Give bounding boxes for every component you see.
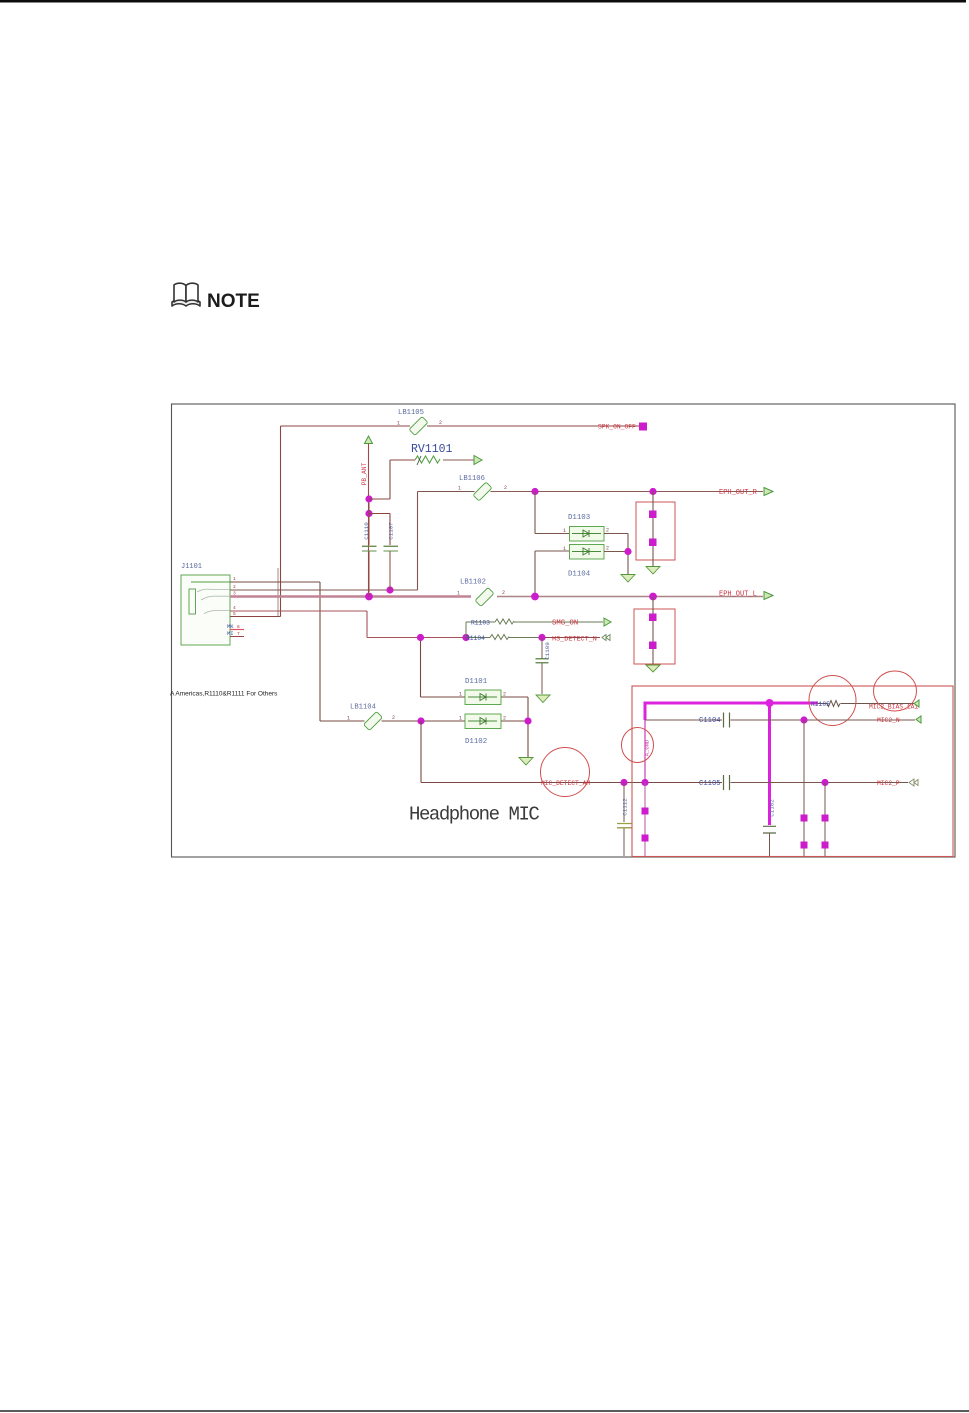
wire pin3 EPH_OUT_L (wide) xyxy=(230,595,471,598)
port arrow EPH_OUT_L xyxy=(764,592,773,600)
svg-text:C1110: C1110 xyxy=(363,522,370,540)
svg-text:HS_DETECT_N: HS_DETECT_N xyxy=(552,636,597,644)
svg-text:NOTE: NOTE xyxy=(207,291,260,312)
pad R2 xyxy=(649,539,657,547)
wire C1104 row xyxy=(645,719,722,721)
wire AGND drop (thin magenta) xyxy=(644,720,646,783)
pad column x825 xyxy=(824,783,826,857)
wire D1103 out xyxy=(604,534,628,552)
svg-text:C1107: C1107 xyxy=(388,522,395,540)
wire HS_DETECT_N run xyxy=(542,637,600,639)
svg-text:C1105: C1105 xyxy=(699,780,721,788)
wire pin5 second strand xyxy=(277,568,279,617)
svg-text:2: 2 xyxy=(606,546,609,552)
wire LB1104 to D1102 xyxy=(382,720,466,722)
junction HS node / C1109 xyxy=(538,634,545,641)
junction PB/RV tap xyxy=(365,495,372,502)
power arrow PB xyxy=(365,436,373,444)
svg-text:MI: MI xyxy=(227,630,234,637)
wire pin1 net (to LB1104 row) xyxy=(230,582,365,721)
svg-text:J1101: J1101 xyxy=(181,563,202,571)
svg-text:C1102: C1102 xyxy=(769,799,776,817)
wire MIC detect run xyxy=(421,721,722,783)
wire D1102 out xyxy=(501,720,528,722)
junction pin2/cap2 xyxy=(386,586,393,593)
thick MIC bias bus horizontal xyxy=(645,702,818,705)
pad L1 xyxy=(649,614,657,622)
junction pin3/jack L xyxy=(649,593,657,601)
svg-text:C1112: C1112 xyxy=(622,798,629,816)
wire pin5 to LB1105 (left vertical riser) xyxy=(230,426,410,617)
svg-text:2: 2 xyxy=(502,590,505,596)
svg-text:2: 2 xyxy=(504,485,507,491)
annotation circle MIC_DETECT xyxy=(541,748,590,797)
junction D1103/D1104 xyxy=(624,548,631,555)
svg-text:1: 1 xyxy=(563,546,566,552)
svg-text:D1101: D1101 xyxy=(465,678,488,686)
junction EPH_OUT_R / D1103 xyxy=(531,488,538,495)
wire LB1105 to SPK pad xyxy=(427,425,639,427)
ground jack R xyxy=(646,567,660,575)
svg-text:A Americas,R1110&R1111 For Oth: A Americas,R1110&R1111 For Others xyxy=(170,691,278,698)
svg-text:1: 1 xyxy=(458,486,461,492)
capacitor C1104 xyxy=(724,713,730,728)
svg-text:1: 1 xyxy=(457,591,460,597)
wire D1104 branch xyxy=(535,551,569,597)
ferrite bead LB1102 xyxy=(475,588,494,607)
thick MIC bias bus left drop xyxy=(644,702,647,721)
junction D1102 out xyxy=(524,717,531,724)
resistor R1105 xyxy=(818,701,914,707)
svg-text:1: 1 xyxy=(459,692,462,698)
svg-text:LB1102: LB1102 xyxy=(460,579,486,587)
svg-text:C1109: C1109 xyxy=(544,642,551,660)
svg-text:SPK_ON_OFF: SPK_ON_OFF xyxy=(598,424,636,431)
svg-text:MIC_DETECT_AM: MIC_DETECT_AM xyxy=(541,780,590,787)
svg-text:R1103: R1103 xyxy=(471,620,490,627)
svg-text:LB1105: LB1105 xyxy=(398,409,424,417)
svg-text:RV1101: RV1101 xyxy=(411,443,453,456)
annotation circle MIC2_BIAS xyxy=(874,671,917,711)
svg-text:4: 4 xyxy=(233,605,236,611)
capacitor C1107 (right) xyxy=(384,546,399,590)
ferrite bead LB1106 xyxy=(473,482,492,501)
wire C1104 to MIC2_N xyxy=(731,719,916,721)
ferrite bead LB1105 xyxy=(409,417,428,436)
svg-text:1: 1 xyxy=(233,576,236,582)
svg-text:R1105: R1105 xyxy=(811,701,830,708)
junction MIC2_P/C1112 xyxy=(620,779,627,786)
junction R1103 tap xyxy=(462,634,469,641)
diode pack D1101 xyxy=(465,690,501,705)
thick MIC bias bus center drop xyxy=(768,703,771,825)
note icon (open book) xyxy=(172,283,200,306)
junction pin3/D1104 xyxy=(531,593,539,601)
svg-text:PB_ANT: PB_ANT xyxy=(361,462,368,485)
svg-text:6: 6 xyxy=(237,624,240,630)
junction LB1104/D1102 node xyxy=(417,717,424,724)
junction C1104/column xyxy=(800,716,807,723)
wire D1101 branch xyxy=(421,638,466,697)
junction PB/C tap xyxy=(365,510,372,517)
svg-text:LB1104: LB1104 xyxy=(350,704,376,712)
ground D1103/D1104 xyxy=(621,575,635,583)
top page bar xyxy=(0,0,966,3)
diode pack D1103 xyxy=(570,527,605,542)
wire jack L column xyxy=(652,597,654,665)
port arrow RV1101 out xyxy=(474,456,482,465)
port arrow HS_DETECT_N xyxy=(602,635,610,641)
ferrite bead LB1104 xyxy=(364,712,383,731)
junction MIC2_P/pad column xyxy=(641,779,648,786)
resistor R1103 branch xyxy=(466,619,603,638)
svg-text:C1104: C1104 xyxy=(699,717,721,725)
junction pin3/cap1 xyxy=(365,593,373,601)
svg-text:D1104: D1104 xyxy=(568,571,591,579)
junction bus T xyxy=(766,699,774,707)
J1101 pin7 stub xyxy=(230,636,244,638)
wire pin2 net to LB1106 xyxy=(230,492,475,591)
svg-text:SMG_ON: SMG_ON xyxy=(552,620,578,628)
diode pack D1102 xyxy=(465,714,501,729)
junction MIC2_P right column xyxy=(821,779,828,786)
capacitor C1110 (left) xyxy=(362,503,377,592)
ground C1109 xyxy=(536,695,550,703)
jack pads L (red highlight box) xyxy=(634,609,675,664)
svg-text:1: 1 xyxy=(397,421,400,427)
ground jack L xyxy=(646,665,660,672)
MIC section red box xyxy=(632,686,953,857)
pad SPK_ON_OFF xyxy=(639,423,647,431)
svg-text:R1104: R1104 xyxy=(466,635,485,642)
connector J1101 xyxy=(181,575,230,645)
svg-text:Headphone MIC: Headphone MIC xyxy=(409,804,539,826)
wire C1105 to MIC2_P xyxy=(731,782,909,784)
svg-text:EPH_OUT_L: EPH_OUT_L xyxy=(719,591,757,599)
J1101 pin6 stub xyxy=(230,629,244,631)
wire EPH_OUT_R run xyxy=(491,491,764,493)
svg-text:1: 1 xyxy=(563,528,566,534)
junction EPH_OUT_R / jack pads xyxy=(649,488,656,495)
port arrow EPH_OUT_R xyxy=(764,488,773,496)
pad R1 xyxy=(649,511,657,519)
svg-text:LB1106: LB1106 xyxy=(459,475,485,483)
capacitor C1109 xyxy=(536,638,549,695)
pad column x804 xyxy=(803,720,805,856)
capacitor C1102 column (thick bus cap) xyxy=(763,826,776,833)
junction pin4/D1101 xyxy=(417,634,424,641)
svg-text:D1103: D1103 xyxy=(568,514,590,522)
wire EPH_OUT_L run xyxy=(497,596,763,598)
wire jack R column xyxy=(652,492,654,567)
capacitor C1105 xyxy=(724,775,730,790)
svg-text:MIC2_N: MIC2_N xyxy=(877,717,900,724)
annotation circle AGND xyxy=(622,728,654,763)
bottom page rule xyxy=(0,1410,969,1412)
svg-text:A_GND: A_GND xyxy=(644,739,651,756)
wire RV1101 branch xyxy=(369,460,415,499)
port arrow MIC2_P xyxy=(909,779,918,786)
port arrow MIC2_N xyxy=(916,716,921,723)
resistor R1104 xyxy=(466,635,542,640)
ground below D1102 xyxy=(519,758,533,766)
svg-text:D1102: D1102 xyxy=(465,738,487,746)
pad column x645 xyxy=(644,783,646,857)
svg-text:2: 2 xyxy=(392,715,395,721)
svg-text:2: 2 xyxy=(439,420,442,426)
wire D1103 branch xyxy=(535,492,569,534)
wire cap branch horizontal xyxy=(369,514,390,546)
wire PB vertical xyxy=(368,444,370,597)
svg-text:2: 2 xyxy=(233,584,236,590)
wire D1101 out to D1102 node xyxy=(501,697,528,757)
port arrow MIC2_BIAS xyxy=(914,700,919,707)
annotation circle R1105 xyxy=(809,676,856,726)
schematic sheet border xyxy=(172,404,956,857)
J1101 pin numbers xyxy=(233,576,236,617)
pad L2 xyxy=(649,642,657,650)
svg-text:2: 2 xyxy=(606,528,609,534)
svg-text:1: 1 xyxy=(347,716,350,722)
svg-text:MIC2_P: MIC2_P xyxy=(877,780,900,787)
svg-text:1: 1 xyxy=(459,716,462,722)
wire D1104 out xyxy=(604,552,628,575)
port arrow SMG_ON xyxy=(604,618,611,626)
svg-text:EPH_OUT_R: EPH_OUT_R xyxy=(719,489,758,497)
jack pads R (red highlight box) xyxy=(636,502,675,560)
capacitor C1112 column xyxy=(617,783,632,857)
wire pin4 net xyxy=(230,611,466,638)
diode pack D1104 xyxy=(570,545,605,560)
svg-text:7: 7 xyxy=(237,631,240,637)
variable resistor RV1101 xyxy=(415,456,440,463)
